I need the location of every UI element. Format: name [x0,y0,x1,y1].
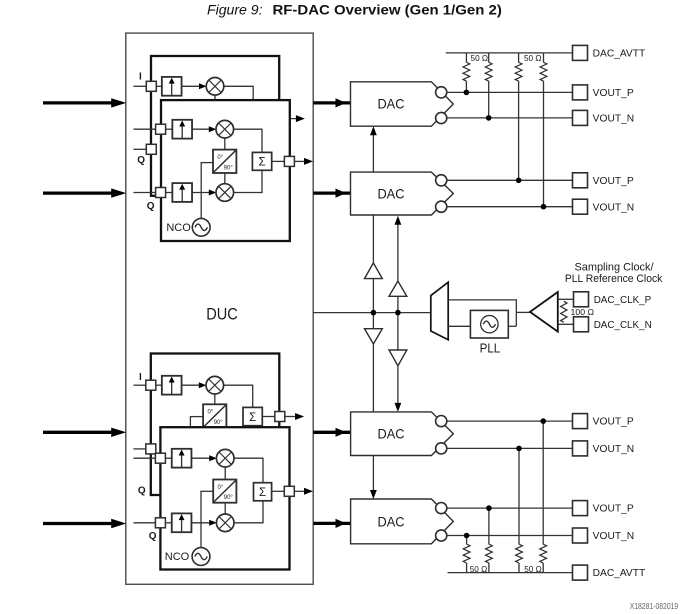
wire summer B to output node [272,160,285,162]
channel A Q input wire [134,148,147,150]
clock wire B up segment [397,296,399,312]
wire DAC_CLK_N input [558,323,574,325]
svg-text:VOUT_P: VOUT_P [593,504,634,515]
wire node to interpolator D1 [165,457,171,459]
DAC4 output bubble P [436,503,447,514]
svg-text:X18281-082019: X18281-082019 [630,602,679,611]
wire node to interpolator B1 [166,128,173,130]
resistor R3 50 ohm [518,53,520,62]
wire PLL output to mux [448,325,470,327]
channel C interpolation filter [162,376,182,395]
channel A interpolation filter [162,77,182,96]
channel B I input wire [134,128,156,130]
sampling clock rail [313,312,431,314]
channel A Q node [146,144,156,154]
wire mixer B1 to sum [233,128,262,130]
wire NCO B to phase splitter [200,163,202,219]
svg-text:VOUT_N: VOUT_N [593,114,635,125]
wire mixer A NCO stub [214,95,216,100]
channel C output arrow [285,416,296,418]
svg-text:Q: Q [137,155,145,166]
channel B Q input wire [134,192,156,194]
mixer D1 (I) [216,449,234,467]
svg-text:90°: 90° [214,420,224,426]
channel D Q node [155,518,165,528]
wire interpolator to mixer A [182,85,200,87]
wire mux bypass input [448,299,516,301]
channel D I input wire [134,457,156,459]
VOUT line DAC2 N [446,206,572,208]
svg-text:PLL Reference Clock: PLL Reference Clock [565,273,663,285]
mixer D2 (Q) [216,514,234,532]
VOUT line DAC1 N [446,117,572,119]
resistor R1 50 ohm [465,53,467,62]
wire interpolator to mixer B2 [192,192,209,194]
DAC_AVTT terminal bottom [573,565,646,580]
channel B I node [156,124,166,134]
svg-text:DAC_CLK_P: DAC_CLK_P [594,295,652,306]
wire mixer B2 to sum [233,192,262,194]
DAC2 output bubble P [436,175,447,186]
phase splitter D 0/90 [213,480,236,503]
mixer B2 (Q) [216,184,234,202]
clock wire A down segment [372,313,374,329]
junction R2 [486,115,492,121]
resistor R8 50 ohm [542,421,544,544]
wire PLL input [508,325,516,327]
svg-text:DAC_CLK_N: DAC_CLK_N [594,320,652,331]
VOUT_N terminal 2 [573,199,635,214]
svg-text:50 Ω: 50 Ω [471,53,489,63]
wire NCO C to phase splitter (hidden) [190,416,203,418]
svg-text:DUC: DUC [206,305,238,324]
clock buffer B up [389,281,407,296]
wire mixer D1 to sum [234,457,263,459]
wire interpolator to mixer B1 [192,128,209,130]
VOUT_P terminal 4 [573,501,635,516]
wire interpolator to mixer C [182,384,200,386]
NCO D oscillator [192,548,210,566]
svg-text:DAC: DAC [377,186,404,202]
clock wire A to DAC2 [372,215,374,263]
channel C Q input wire [134,448,146,450]
DAC1 block [351,82,454,126]
svg-text:Q: Q [138,485,146,496]
DAC1 output bubble P [436,87,447,98]
clock input buffer [530,292,558,332]
svg-text:I: I [139,72,142,83]
svg-text:DAC: DAC [378,425,405,441]
summer B [252,152,271,170]
VOUT line DAC3 N [446,447,572,449]
channel D interpolation filter (Q) [172,513,192,532]
DUC to DAC1 arrow [313,98,350,107]
wire phase splitter to mixer B2 [224,173,226,184]
channel A output arrowhead [296,115,305,122]
VOUT_P terminal 1 [573,85,635,100]
wire phase splitter to mixer D2 [224,503,226,515]
svg-text:Figure 9:RF-DAC Overview (Gen: Figure 9:RF-DAC Overview (Gen 1/Gen 2) [207,2,502,18]
DAC1 output bubble N [436,112,447,123]
mixer A (I) [206,78,224,96]
wire node to interpolator D2 [165,522,171,524]
svg-text:50 Ω: 50 Ω [524,564,542,574]
resistor R2 50 ohm [488,53,490,62]
svg-text:VOUT_N: VOUT_N [593,444,635,455]
VOUT line DAC2 P [446,179,572,181]
svg-text:100 Ω: 100 Ω [571,307,595,317]
svg-text:Sampling Clock/: Sampling Clock/ [575,261,655,273]
channel A output wire (behind) [262,118,296,120]
clock wire B to DAC3 with arrow [397,366,399,409]
DAC3 block [351,412,454,456]
clock buffer B down [389,350,407,366]
wire summer D to output node [272,490,285,492]
junction R5 [464,533,470,539]
wire mixer C to sum [223,384,252,386]
junction R7 [516,446,522,452]
channel D output arrow [294,490,305,492]
channel D I node [155,453,165,463]
wire mixer C to phase splitter [214,394,216,405]
channel C output node [275,412,285,422]
channel B output arrow [294,160,305,162]
channel A I input wire [134,85,147,87]
clock wire B down segment [397,313,399,350]
DUC channel C box (back) [151,354,279,496]
resistor R6 50 ohm [488,508,490,544]
channel B output node [284,156,294,166]
svg-text:DAC: DAC [377,96,404,112]
termination resistor 100 ohm [561,301,567,322]
PLL block [470,310,508,338]
DAC2 output bubble N [436,201,447,212]
wire interpolator to mixer D2 [191,522,209,524]
DAC_CLK_N terminal [574,317,652,332]
channel C I node [146,380,156,390]
svg-text:90°: 90° [224,165,234,171]
clock rail junction A [371,310,377,316]
wire mixer D1 to phase splitter [224,467,226,480]
clock wire A up segment [372,279,374,313]
svg-text:DAC: DAC [378,513,405,529]
summer D [254,483,272,501]
VOUT_N terminal 4 [573,528,635,543]
DUC block outer box [126,33,313,584]
DUC channel B box (front) [161,100,290,241]
wire DAC_CLK_P input [558,298,574,300]
junction R4 [541,204,547,210]
DAC_AVTT rail top [446,52,573,54]
junction R8 [540,418,546,424]
svg-text:VOUT_P: VOUT_P [593,417,634,428]
DAC_AVTT rail bottom [448,572,573,574]
DAC4 block [351,499,454,544]
phase splitter C 0/90 [203,404,226,427]
svg-text:0°: 0° [217,155,223,161]
wire buffer to junction [516,311,530,313]
VOUT_N terminal 1 [573,110,635,125]
VOUT line DAC3 P [446,420,572,422]
clock rail junction B [395,310,401,316]
data input arrow 4 [43,519,126,528]
svg-text:I: I [139,372,142,383]
clock wire B to DAC2 with arrow [397,218,399,281]
svg-text:NCO: NCO [165,551,190,563]
VOUT line DAC4 P [446,507,572,509]
wire mixer D2 to sum [234,522,263,524]
svg-text:PLL: PLL [480,342,501,356]
clock wire A to DAC3 [372,344,374,412]
svg-text:VOUT_P: VOUT_P [593,88,634,99]
svg-text:50 Ω: 50 Ω [524,53,542,63]
svg-text:Σ: Σ [259,487,266,499]
svg-text:DAC_AVTT: DAC_AVTT [593,49,646,60]
channel B interpolation filter (Q) [172,183,192,202]
resistor R5 50 ohm [466,536,468,545]
data input arrow 2 [43,188,126,197]
svg-text:VOUT_P: VOUT_P [593,176,634,187]
data input arrow 3 [43,428,126,437]
clock wire DAC2 to DAC1 with arrow [372,129,374,172]
resistor R4 50 ohm [543,53,545,62]
DUC channel A box (back) [151,56,279,196]
VOUT_P terminal 3 [573,414,635,429]
NCO B oscillator [192,218,210,236]
svg-text:DAC_AVTT: DAC_AVTT [593,568,646,579]
resistor R7 50 ohm [518,448,520,544]
DUC to DAC2 arrow [313,189,350,198]
DUC to DAC4 arrow [313,519,350,528]
phase splitter B 0/90 [213,150,236,173]
VOUT line DAC1 P [446,91,572,93]
svg-text:NCO: NCO [166,222,191,234]
wire interpolator to mixer D1 [191,457,209,459]
channel D Q input wire [134,522,156,524]
svg-text:0°: 0° [218,485,224,491]
svg-text:Q: Q [149,531,157,542]
DAC3 output bubble N [436,443,447,454]
junction R3 [516,178,522,184]
channel B Q node [156,188,166,198]
DUC channel D box (front) [160,427,289,569]
VOUT_N terminal 3 [573,441,635,456]
clock buffer A up [365,263,383,279]
DAC2 block [351,172,454,215]
DAC4 output bubble N [436,530,447,541]
svg-text:0°: 0° [207,410,213,416]
channel D output node [284,486,294,496]
clock wire DAC3 to DAC4 with arrow [372,456,374,497]
svg-text:Q: Q [147,201,155,212]
wire mixer A to sum (hidden) [224,85,254,87]
channel C I input wire [134,384,146,386]
mixer B1 (I) [216,120,234,138]
clock mux [431,282,448,340]
wire NCO D to phase splitter [200,491,202,547]
channel A I node [146,81,156,91]
svg-text:Σ: Σ [249,412,256,424]
DUC to DAC3 arrow [313,428,350,437]
svg-text:VOUT_N: VOUT_N [593,202,635,213]
svg-text:VOUT_N: VOUT_N [593,531,635,542]
junction R6 [486,505,492,511]
svg-text:90°: 90° [224,495,234,501]
mixer C (I) [206,376,224,394]
PLL oscillator [481,316,498,333]
wire summer C to output node [262,416,275,418]
wire node to interpolator B2 [166,192,173,194]
VOUT_P terminal 2 [573,173,635,188]
wire node to interpolator [156,85,162,87]
DAC_AVTT terminal top [573,45,646,60]
DAC_CLK_P terminal [574,292,652,307]
channel B interpolation filter (I) [172,120,192,139]
channel C Q node [146,444,156,454]
data input arrow 1 [43,98,126,107]
junction R1 [464,90,470,96]
clock buffer A down [365,329,383,344]
wire node to interpolator C [156,384,162,386]
VOUT line DAC4 N [446,535,572,537]
channel D interpolation filter (I) [172,449,192,468]
svg-text:Σ: Σ [258,157,265,169]
svg-text:50 Ω: 50 Ω [470,564,488,574]
DAC3 output bubble P [436,416,447,427]
summer C [243,407,262,425]
wire mixer B1 to phase splitter [224,138,226,150]
